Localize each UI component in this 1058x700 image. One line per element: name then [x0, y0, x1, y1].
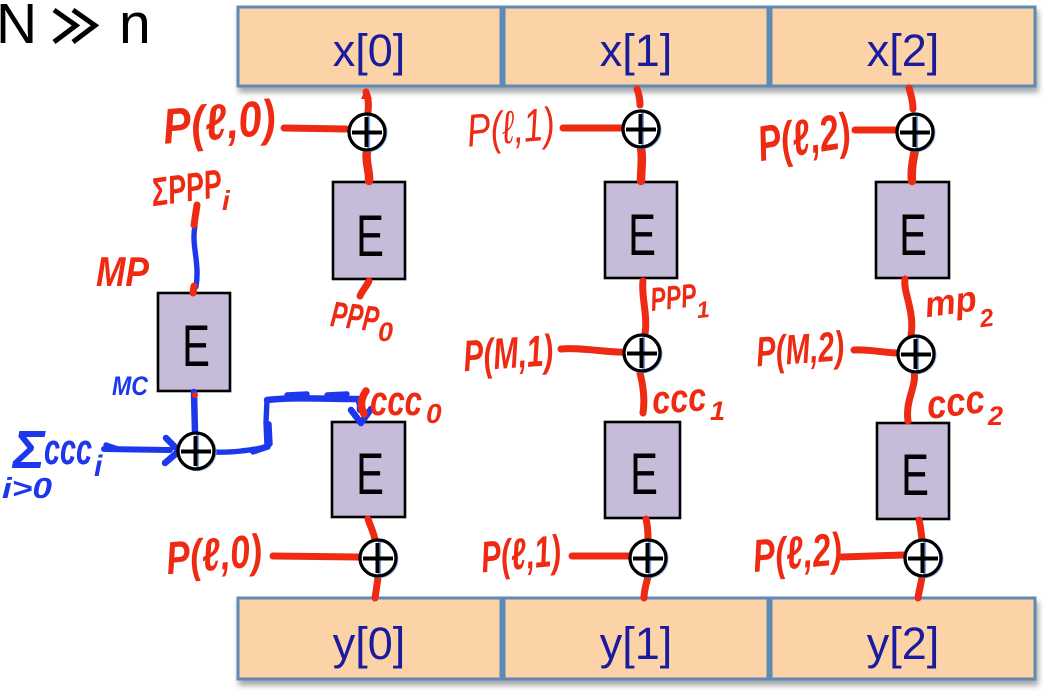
svg-text:P(M,2): P(M,2) — [755, 322, 846, 375]
svg-text:E: E — [628, 202, 656, 267]
svg-text:E: E — [899, 202, 927, 267]
svg-text:i: i — [222, 185, 231, 216]
svg-text:0: 0 — [426, 398, 442, 429]
svg-text:E: E — [182, 313, 210, 378]
svg-text:P(ℓ,1): P(ℓ,1) — [465, 97, 557, 156]
svg-text:E: E — [356, 203, 384, 268]
svg-text:0: 0 — [378, 317, 393, 347]
svg-text:ccc: ccc — [44, 425, 92, 474]
svg-text:n: n — [119, 0, 151, 56]
svg-text:P(ℓ,2): P(ℓ,2) — [751, 522, 844, 582]
svg-text:P(ℓ,0): P(ℓ,0) — [164, 524, 264, 584]
svg-text:PPP: PPP — [648, 276, 698, 318]
svg-text:y[0]: y[0] — [333, 618, 406, 669]
svg-text:E: E — [356, 441, 384, 506]
svg-text:E: E — [630, 441, 658, 506]
svg-text:E: E — [901, 442, 929, 507]
svg-text:y[2]: y[2] — [867, 618, 940, 669]
svg-text:y[1]: y[1] — [600, 618, 673, 669]
svg-text:N: N — [0, 0, 37, 56]
svg-text:i>0: i>0 — [2, 473, 52, 505]
svg-text:x[1]: x[1] — [600, 25, 673, 76]
svg-text:ccc: ccc — [924, 377, 987, 428]
svg-text:PPP: PPP — [329, 293, 382, 340]
svg-text:1: 1 — [695, 296, 710, 323]
svg-text:i: i — [94, 450, 103, 483]
svg-text:P(ℓ,1): P(ℓ,1) — [479, 527, 563, 583]
svg-text:x[2]: x[2] — [867, 25, 940, 76]
svg-text:Σ: Σ — [11, 420, 46, 480]
svg-text:mp: mp — [922, 277, 979, 325]
svg-text:MP: MP — [96, 248, 150, 295]
svg-text:ccc: ccc — [651, 375, 708, 423]
svg-text:P(ℓ,0): P(ℓ,0) — [161, 89, 278, 155]
svg-text:P(M,1): P(M,1) — [462, 326, 555, 381]
svg-text:1: 1 — [710, 396, 725, 426]
svg-text:ccc: ccc — [370, 377, 422, 424]
svg-text:MC: MC — [112, 371, 148, 401]
svg-text:2: 2 — [987, 401, 1003, 431]
svg-text:x[0]: x[0] — [333, 25, 406, 76]
